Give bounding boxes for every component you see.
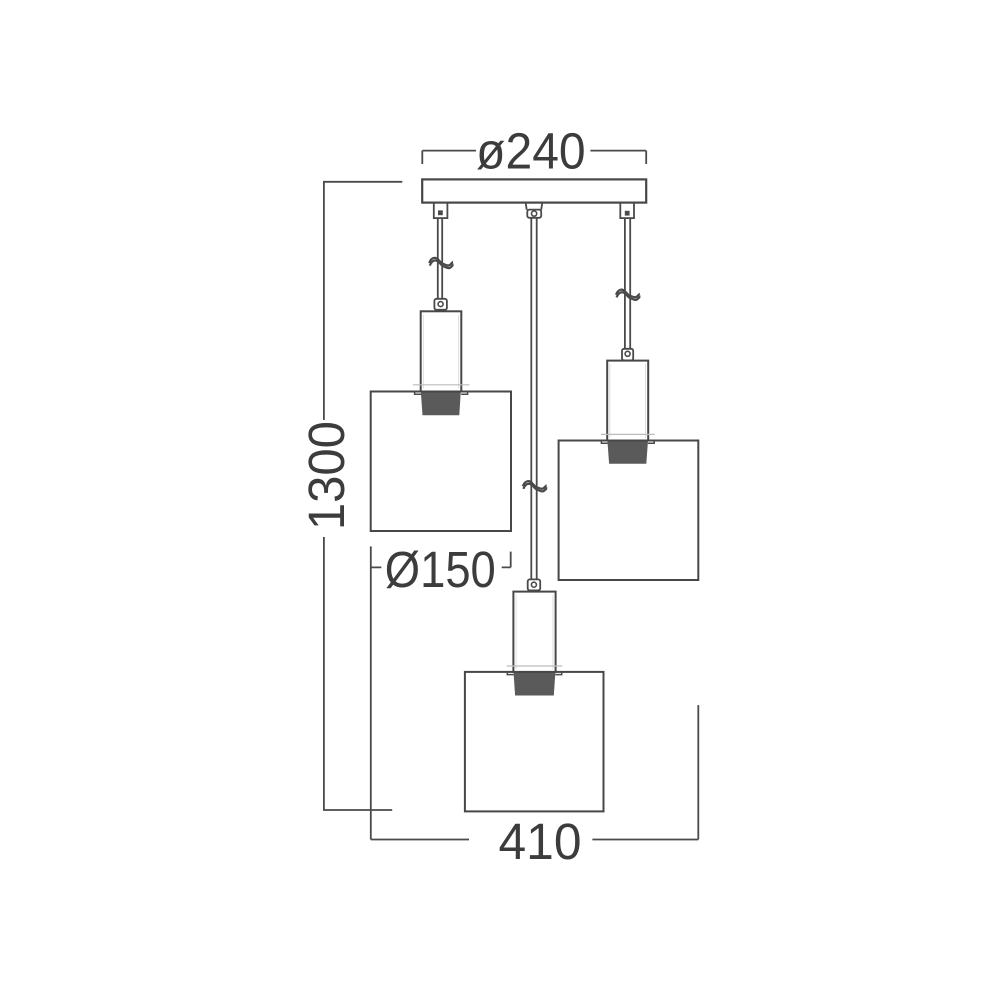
- right lamp holder: [607, 361, 648, 441]
- right cord break symbol: [616, 290, 640, 300]
- canopy ceiling bar: [422, 179, 646, 202]
- right lamp cord: [625, 218, 630, 349]
- left lamp socket: [421, 392, 461, 416]
- left lamp flange: [413, 385, 470, 394]
- dimension 1300: [298, 182, 402, 810]
- svg-text:Ø150: Ø150: [385, 541, 496, 598]
- middle lamp socket: [514, 672, 556, 696]
- left cord break symbol: [429, 258, 453, 268]
- left cord lower connector: [434, 299, 447, 310]
- middle lamp swivel at canopy: [526, 203, 543, 218]
- middle lamp cord: [531, 218, 536, 580]
- dimension 410: [371, 705, 699, 870]
- svg-text:ø240: ø240: [476, 123, 586, 180]
- left lamp shade: [371, 392, 511, 532]
- middle cord lower connector: [528, 579, 541, 590]
- left lamp cord connector at canopy: [434, 202, 448, 218]
- middle lamp shade: [465, 672, 604, 812]
- svg-text:410: 410: [499, 813, 582, 870]
- middle cord break symbol: [523, 481, 547, 491]
- svg-text:1300: 1300: [298, 421, 355, 530]
- left lamp cord: [438, 218, 442, 299]
- middle lamp holder: [513, 592, 555, 672]
- right lamp shade: [559, 441, 699, 581]
- dimension Ø150: [371, 541, 511, 840]
- right lamp flange: [601, 434, 655, 443]
- right lamp socket: [607, 441, 648, 464]
- right cord lower connector: [622, 349, 633, 361]
- left lamp holder: [421, 311, 462, 391]
- middle lamp flange: [507, 666, 563, 675]
- right lamp cord connector at canopy: [620, 202, 634, 218]
- dimension ø240: [422, 123, 646, 180]
